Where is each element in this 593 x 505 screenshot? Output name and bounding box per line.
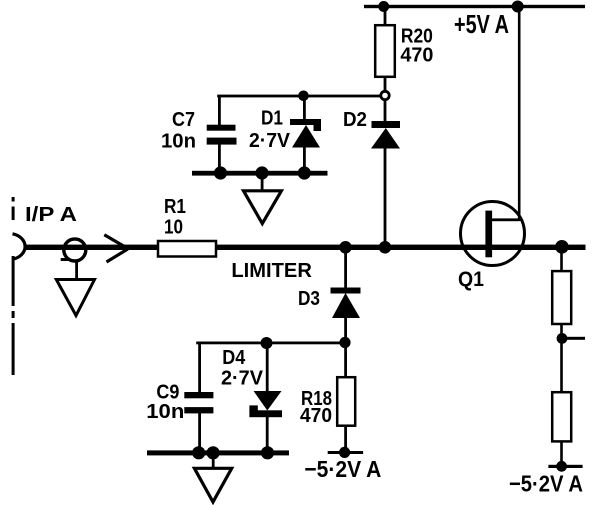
svg-text:+5V A: +5V A [454, 11, 509, 39]
svg-text:470: 470 [400, 45, 433, 67]
svg-text:Q1: Q1 [458, 268, 484, 291]
svg-text:R1: R1 [164, 196, 186, 218]
svg-text:−5·2V A: −5·2V A [509, 471, 583, 497]
svg-text:10: 10 [164, 217, 183, 239]
svg-text:I/P A: I/P A [25, 204, 77, 226]
svg-text:D4: D4 [222, 347, 246, 369]
svg-text:D3: D3 [298, 288, 320, 310]
svg-text:C7: C7 [172, 109, 195, 131]
svg-text:C9: C9 [156, 381, 179, 403]
svg-text:10n: 10n [161, 131, 196, 153]
svg-text:470: 470 [300, 405, 332, 427]
svg-text:2·7V: 2·7V [221, 367, 264, 389]
svg-text:D2: D2 [343, 109, 367, 131]
svg-text:LIMITER: LIMITER [231, 260, 312, 282]
svg-text:10n: 10n [146, 401, 184, 423]
svg-text:−5·2V A: −5·2V A [304, 456, 381, 482]
svg-text:D1: D1 [261, 108, 283, 130]
svg-text:2·7V: 2·7V [249, 130, 291, 152]
